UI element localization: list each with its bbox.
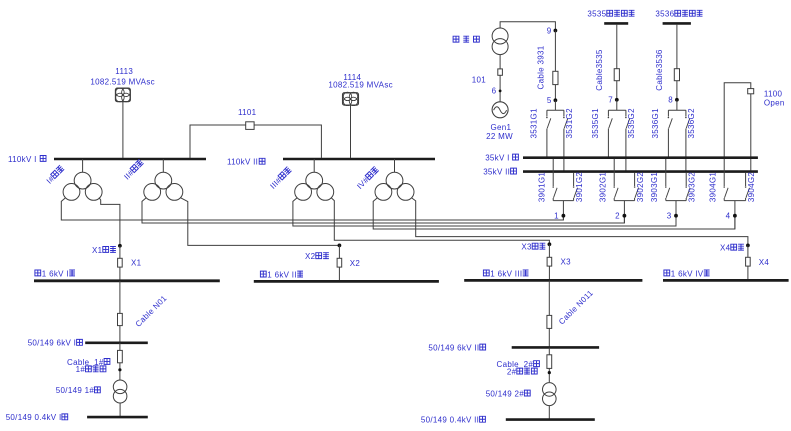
disconnect switch 3903G1 bbox=[665, 159, 667, 186]
svg-text:3536G2: 3536G2 bbox=[687, 108, 696, 139]
disconnect switch 3904G1 bbox=[723, 159, 725, 186]
svg-text:Cable3535: Cable3535 bbox=[595, 49, 604, 91]
svg-text:3531G1: 3531G1 bbox=[530, 108, 539, 139]
svg-text:Cable3536: Cable3536 bbox=[655, 49, 664, 91]
wire T4 6kV winding to X4前端 bbox=[411, 198, 748, 246]
node 4 bbox=[733, 214, 737, 218]
wire T2 35kV winding to node 2 bbox=[142, 198, 624, 223]
bus 3536线路末端 terminal bbox=[663, 22, 691, 25]
bus 35kV II母 bbox=[523, 170, 758, 173]
svg-text:3903G1: 3903G1 bbox=[650, 172, 659, 203]
label 中1 6kV II段 bbox=[260, 271, 266, 277]
wire transformer to generator bbox=[499, 55, 501, 102]
step-up transformer 升压变 (two-winding) bbox=[492, 28, 508, 44]
svg-text:110kV II: 110kV II bbox=[227, 158, 258, 167]
breaker X3 bbox=[548, 244, 550, 257]
node X3前端 bbox=[548, 242, 552, 246]
transformer IV#主变 (three-winding) bbox=[386, 172, 403, 189]
bus 50/149 0.4kV II段 bbox=[506, 418, 595, 421]
wire 1100 to bus II bbox=[750, 94, 752, 172]
svg-text:5: 5 bbox=[547, 96, 552, 105]
node 1#变高侧 bbox=[119, 363, 121, 380]
svg-text:X3: X3 bbox=[521, 243, 532, 252]
disconnect switch 3536G2 bbox=[685, 110, 687, 116]
svg-text:X1: X1 bbox=[92, 246, 103, 255]
svg-text:X2: X2 bbox=[305, 252, 316, 261]
svg-text:Open: Open bbox=[764, 99, 785, 108]
svg-text:1082.519 MVAsc: 1082.519 MVAsc bbox=[328, 81, 393, 90]
cable Cable3535 bbox=[614, 69, 619, 81]
svg-text:8: 8 bbox=[668, 96, 673, 105]
disconnect switch 3902G2 bbox=[634, 173, 636, 186]
svg-text:3535G1: 3535G1 bbox=[591, 108, 600, 139]
svg-text:3902G2: 3902G2 bbox=[636, 172, 645, 203]
svg-text:50/149 0.4kV II: 50/149 0.4kV II bbox=[421, 416, 479, 425]
transformer III#主变 (three-winding) bbox=[306, 172, 323, 189]
wire switch pair join to node 2 bbox=[614, 200, 634, 202]
label II#主变 bbox=[122, 159, 145, 182]
transformer 50/149 1#变 bbox=[113, 380, 127, 394]
disconnect switch 3535G2 bbox=[625, 110, 627, 116]
generator Gen1 bbox=[492, 102, 508, 118]
svg-text:1100: 1100 bbox=[764, 89, 783, 98]
wire T3 6kV winding to X3前端 bbox=[331, 198, 549, 245]
svg-text:22 MW: 22 MW bbox=[486, 132, 513, 141]
bus 中1 6kV IV段 bbox=[663, 279, 789, 282]
svg-text:X4: X4 bbox=[720, 244, 731, 253]
breaker X2 bbox=[338, 245, 340, 258]
bus 50/149 0.4kV I段 bbox=[87, 416, 148, 419]
svg-text:3: 3 bbox=[667, 212, 672, 221]
wire bus to cable 1#变 bbox=[119, 343, 121, 351]
bus 中1 6kV II段 bbox=[254, 280, 439, 283]
disconnect switch 3902G1 bbox=[613, 159, 615, 186]
svg-text:1113: 1113 bbox=[115, 67, 133, 76]
bus 中1 6kV I段 bbox=[34, 279, 220, 282]
svg-text:35kV II: 35kV II bbox=[483, 167, 510, 176]
svg-text:1101: 1101 bbox=[238, 108, 257, 117]
transformer II#主变 (three-winding) bbox=[155, 172, 172, 189]
svg-text:110kV I: 110kV I bbox=[8, 155, 37, 164]
label 中1 6kV III段 bbox=[483, 270, 489, 276]
svg-text:3901G1: 3901G1 bbox=[537, 172, 546, 203]
grid source 1114 symbol bbox=[343, 93, 359, 105]
wire T1 6kV winding to X1前端 bbox=[99, 198, 120, 246]
svg-text:101: 101 bbox=[472, 75, 486, 84]
svg-text:1 6kV I: 1 6kV I bbox=[42, 269, 69, 278]
wire node to switch pair 3536G1/3536G2 bbox=[676, 100, 678, 110]
svg-text:2: 2 bbox=[615, 212, 620, 221]
wire bus to cable 2#变 bbox=[548, 347, 550, 354]
svg-text:3536G1: 3536G1 bbox=[651, 108, 660, 139]
svg-text:50/149 6kV I: 50/149 6kV I bbox=[28, 339, 77, 348]
node 8 bbox=[675, 98, 679, 102]
bus 50/149 6kV I段 bbox=[85, 341, 148, 344]
disconnect switch 3901G2 bbox=[573, 173, 575, 186]
svg-text:9: 9 bbox=[547, 26, 552, 35]
svg-text:6: 6 bbox=[492, 87, 497, 96]
svg-text:3904G1: 3904G1 bbox=[708, 172, 717, 203]
cable Cable 1#变 bbox=[118, 350, 123, 362]
node 2 bbox=[623, 214, 627, 218]
disconnect switch 3536G1 bbox=[667, 110, 669, 116]
wire T4 35kV winding to node 4 bbox=[373, 198, 735, 229]
wire T1 35kV winding to node 1 bbox=[61, 198, 563, 220]
svg-text:3535G2: 3535G2 bbox=[627, 108, 636, 139]
wire node to switch pair 3531G1/3531G2 bbox=[554, 100, 556, 110]
wire 1100 bus-tie bbox=[724, 83, 751, 158]
label 中1 6kV I段 bbox=[35, 270, 41, 276]
svg-text:3901G2: 3901G2 bbox=[575, 172, 584, 203]
wire bus III to cable N011 bbox=[548, 280, 550, 315]
label 中1 6kV IV段 bbox=[664, 270, 670, 276]
svg-text:3535: 3535 bbox=[587, 10, 606, 19]
wire bus to transformer T2 bbox=[162, 159, 164, 172]
bus 110kV II母 bbox=[283, 158, 435, 161]
svg-text:4: 4 bbox=[726, 212, 731, 221]
breaker 1100 (open) bbox=[748, 89, 754, 94]
svg-text:7: 7 bbox=[608, 96, 613, 105]
wire bus to transformer T4 bbox=[394, 159, 396, 172]
node 6 bbox=[499, 90, 502, 93]
node 9 bbox=[554, 29, 558, 33]
wire bus-tie 1101 bbox=[190, 125, 321, 158]
disconnect switch 3903G2 bbox=[685, 173, 687, 186]
svg-text:50/149 6kV II: 50/149 6kV II bbox=[428, 343, 479, 352]
disconnect switch 3531G1 bbox=[546, 110, 548, 116]
node 2#变高侧 bbox=[548, 368, 550, 382]
wire cable N01 to bus bbox=[119, 326, 121, 343]
bus 110kV I母 bbox=[54, 158, 206, 161]
cable Cable N011 bbox=[547, 315, 552, 328]
label IV#主变 bbox=[355, 166, 380, 191]
svg-text:1: 1 bbox=[554, 212, 559, 221]
wire switch pair join to node 4 bbox=[724, 200, 745, 202]
transformer I#主变 (three-winding) bbox=[74, 172, 91, 189]
svg-text:X3: X3 bbox=[561, 258, 572, 267]
wire grid 1113 to bus I bbox=[122, 102, 124, 158]
node X2前端 bbox=[338, 244, 342, 248]
svg-text:50/149 2#: 50/149 2# bbox=[486, 389, 525, 398]
wire transformer to 0.4kV bus bbox=[119, 403, 121, 417]
wire bus I to cable N01 bbox=[119, 281, 121, 313]
wire switch pair join to node 1 bbox=[553, 200, 573, 202]
svg-text:1 6kV IV: 1 6kV IV bbox=[671, 269, 704, 278]
bus 中1 6kV III段 bbox=[464, 279, 642, 282]
svg-text:X4: X4 bbox=[759, 258, 770, 267]
node 7 bbox=[615, 98, 619, 102]
wire 3536 terminal to cable bbox=[676, 25, 678, 69]
wire node 9 to cable 3531 bbox=[554, 31, 556, 72]
cable Cable3536 bbox=[674, 69, 679, 81]
wire T2 6kV winding to X2前端 bbox=[180, 198, 339, 246]
svg-text:3536: 3536 bbox=[655, 10, 674, 19]
svg-text:1 6kV III: 1 6kV III bbox=[490, 269, 522, 278]
disconnect switch 3531G2 bbox=[563, 110, 565, 116]
breaker 101 bbox=[498, 69, 503, 75]
svg-text:2#: 2# bbox=[507, 367, 517, 376]
svg-text:50/149 0.4kV I: 50/149 0.4kV I bbox=[6, 413, 62, 422]
wire T3 35kV winding to node 3 bbox=[293, 198, 676, 226]
label III#主变 bbox=[268, 166, 293, 191]
node 3 bbox=[674, 214, 678, 218]
cable Cable N01 bbox=[118, 313, 123, 325]
label I#主变 bbox=[45, 165, 66, 186]
wire bus to transformer T1 bbox=[82, 159, 84, 172]
svg-text:X1: X1 bbox=[131, 258, 142, 267]
wire transformer to 0.4kV bus bbox=[548, 406, 550, 420]
svg-text:1#: 1# bbox=[76, 365, 86, 374]
disconnect switch 3904G2 bbox=[745, 173, 747, 186]
node X4前端 bbox=[746, 244, 750, 248]
label 升压变 bbox=[453, 36, 459, 42]
wire cable to node 5 bbox=[554, 85, 556, 101]
breaker X4 bbox=[747, 245, 749, 257]
svg-text:Cable 3931: Cable 3931 bbox=[537, 45, 546, 89]
wire 3535 terminal to cable bbox=[616, 25, 618, 69]
node 1 bbox=[562, 214, 566, 218]
node X1前端 bbox=[118, 244, 122, 248]
disconnect switch 3535G1 bbox=[607, 110, 609, 116]
svg-text:3903G2: 3903G2 bbox=[688, 172, 697, 203]
wire cable3536 to node 8 bbox=[676, 81, 678, 100]
wire switch pair join to node 3 bbox=[666, 200, 686, 202]
wire bus to transformer T3 bbox=[313, 159, 315, 172]
svg-text:3531G2: 3531G2 bbox=[565, 108, 574, 139]
cable Cable 3931 bbox=[553, 71, 558, 84]
transformer 50/149 2#变 bbox=[543, 383, 557, 397]
svg-text:1082.519 MVAsc: 1082.519 MVAsc bbox=[90, 78, 155, 87]
wire transformer top to node 9 bbox=[500, 22, 555, 31]
svg-text:50/149 1#: 50/149 1# bbox=[56, 386, 95, 395]
svg-text:3904G2: 3904G2 bbox=[747, 172, 756, 203]
svg-text:1 6kV II: 1 6kV II bbox=[267, 270, 297, 279]
svg-text:3902G1: 3902G1 bbox=[598, 172, 607, 203]
wire cable N011 to bus bbox=[548, 328, 550, 347]
wire cable3535 to node 7 bbox=[616, 81, 618, 100]
bus 3535线路末端 terminal bbox=[604, 22, 628, 25]
wire node to switch pair 3535G1/3535G2 bbox=[616, 100, 618, 110]
breaker X1 bbox=[119, 246, 121, 258]
bus 35kV I母 bbox=[523, 156, 758, 159]
svg-text:X2: X2 bbox=[350, 259, 361, 268]
breaker 1101 (open) bbox=[246, 122, 254, 130]
disconnect switch 3901G1 bbox=[552, 159, 554, 186]
bus 50/149 6kV II段 bbox=[512, 346, 599, 349]
svg-text:35kV I: 35kV I bbox=[485, 153, 509, 162]
grid source 1113 symbol bbox=[116, 88, 131, 101]
node 5 bbox=[554, 98, 558, 102]
cable Cable 2#变 bbox=[547, 355, 552, 369]
wire grid 1114 to bus II bbox=[350, 105, 352, 158]
